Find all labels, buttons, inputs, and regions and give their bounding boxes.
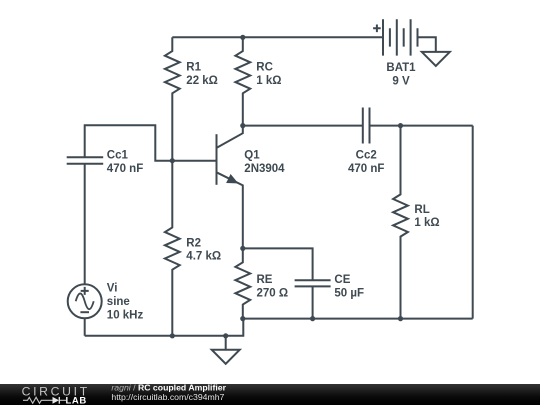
wire output bottom row bbox=[243, 318, 473, 320]
footer bar bbox=[0, 384, 540, 405]
resistor RE bbox=[235, 248, 250, 318]
resistor RL bbox=[393, 126, 408, 319]
node dot top rail/RC bbox=[240, 35, 245, 40]
node dot ground rail bbox=[223, 333, 228, 338]
node dot base bbox=[170, 158, 175, 163]
ground GND2 bbox=[422, 52, 450, 66]
node dot CE bottom bbox=[310, 316, 315, 321]
wire emitter to CE bbox=[243, 248, 313, 280]
svg-text:http://circuitlab.com/c394mh7: http://circuitlab.com/c394mh7 bbox=[111, 392, 224, 402]
wire battery to ground bbox=[418, 37, 436, 52]
footer credit text bbox=[111, 383, 226, 402]
wire Cc1 to base bbox=[85, 125, 217, 161]
node dot emitter/CE bbox=[240, 246, 245, 251]
capacitor CE bbox=[295, 280, 331, 286]
node dot RE bottom bbox=[240, 316, 245, 321]
node dot collector bbox=[240, 123, 245, 128]
node dot R2 bottom bbox=[170, 333, 175, 338]
resistor R1 bbox=[165, 37, 180, 160]
wire right edge loop bbox=[472, 126, 474, 319]
battery BAT1 bbox=[373, 19, 417, 55]
resistor RC bbox=[235, 37, 250, 125]
wire top rail bbox=[172, 36, 383, 38]
node dot Cc2 out bbox=[398, 123, 403, 128]
wire collector row bbox=[243, 125, 473, 127]
svg-text:LAB: LAB bbox=[66, 395, 87, 405]
ground GND1 bbox=[212, 336, 240, 364]
node dot RL bottom bbox=[398, 316, 403, 321]
transistor Q1 bbox=[217, 126, 243, 249]
wire ground rail bbox=[85, 319, 244, 336]
capacitor Cc1 bbox=[67, 157, 104, 164]
source Vi bbox=[68, 164, 102, 336]
resistor R2 bbox=[165, 161, 180, 336]
capacitor Cc2 bbox=[363, 108, 370, 144]
CircuitLab logo bbox=[22, 384, 90, 405]
wire CE bottom bbox=[312, 286, 314, 318]
